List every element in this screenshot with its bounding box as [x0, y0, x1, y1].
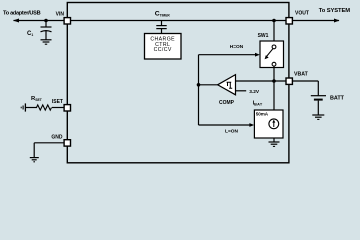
svg-text:CC/CV: CC/CV — [154, 47, 172, 53]
svg-text:50mA: 50mA — [256, 112, 269, 117]
svg-text:To SYSTEM: To SYSTEM — [319, 8, 350, 14]
svg-text:To adapter/USB: To adapter/USB — [3, 10, 41, 16]
svg-text:SW1: SW1 — [258, 33, 269, 39]
svg-text:L=ON: L=ON — [225, 128, 238, 134]
svg-text:BATT: BATT — [330, 96, 345, 102]
svg-text:COMP: COMP — [219, 100, 235, 106]
svg-text:GND: GND — [51, 134, 63, 140]
svg-text:VIN: VIN — [56, 11, 65, 17]
svg-text:ISET: ISET — [52, 99, 63, 105]
svg-text:VBAT: VBAT — [294, 71, 309, 77]
svg-text:3.2V: 3.2V — [249, 89, 260, 95]
svg-text:H=ON: H=ON — [230, 44, 244, 50]
svg-text:VOUT: VOUT — [295, 11, 309, 17]
